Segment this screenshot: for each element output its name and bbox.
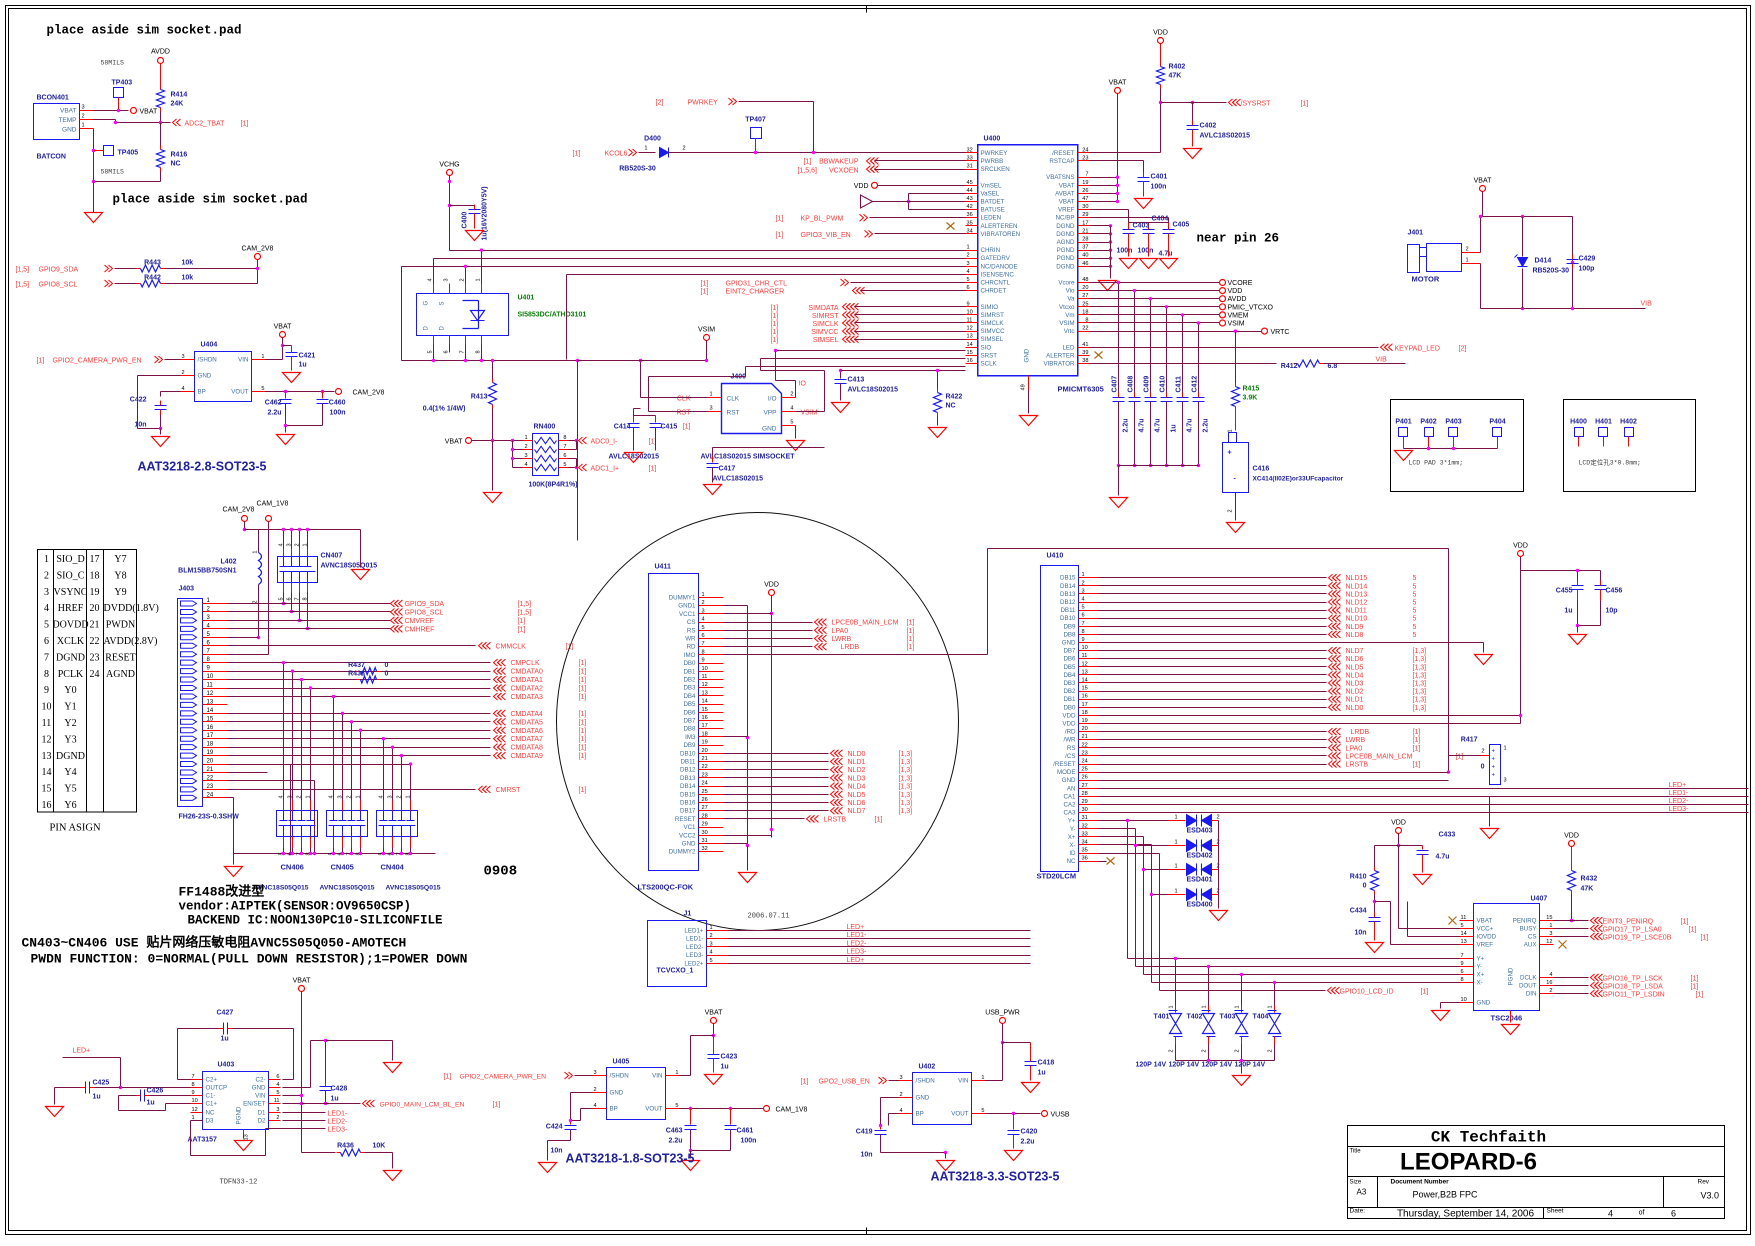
svg-text:CN404: CN404	[381, 863, 405, 872]
svg-text:10k: 10k	[182, 260, 194, 267]
svg-text:SIO: SIO	[981, 344, 992, 351]
svg-text:ESD402: ESD402	[1187, 853, 1213, 860]
svg-text:1: 1	[261, 354, 264, 360]
svg-text:100n: 100n	[1117, 248, 1133, 255]
svg-text:KP_BL_PWM: KP_BL_PWM	[801, 216, 844, 223]
svg-text:16: 16	[1546, 980, 1552, 986]
svg-text:DB2: DB2	[1063, 688, 1076, 695]
svg-text:P403: P403	[1445, 419, 1461, 426]
svg-text:14: 14	[1461, 931, 1467, 937]
svg-text:[1]: [1]	[1413, 729, 1421, 736]
svg-text:[1,3]: [1,3]	[1413, 689, 1427, 696]
svg-text:RSTCAP: RSTCAP	[1049, 158, 1074, 165]
svg-text:120P 14V: 120P 14V	[1235, 1062, 1266, 1069]
svg-text:VPP: VPP	[763, 410, 776, 417]
svg-text:13: 13	[42, 751, 52, 762]
svg-text:LEOPARD-6: LEOPARD-6	[1400, 1149, 1537, 1176]
svg-text:SIMRST: SIMRST	[981, 312, 1005, 319]
svg-text:LED3-: LED3-	[847, 949, 868, 956]
svg-text:TP403: TP403	[112, 80, 133, 87]
svg-text:VSIM: VSIM	[1059, 320, 1074, 327]
svg-text:VDD: VDD	[1564, 833, 1579, 840]
svg-text:5: 5	[675, 1103, 678, 1109]
svg-text:5: 5	[276, 1090, 279, 1096]
svg-text:1u: 1u	[221, 1036, 229, 1043]
svg-text:1: 1	[644, 146, 647, 152]
svg-text:DB7: DB7	[683, 718, 696, 725]
svg-text:[1]: [1]	[579, 728, 587, 735]
svg-text:PWDN FUNCTION: 0=NORMAL(PULL D: PWDN FUNCTION: 0=NORMAL(PULL DOWN RESIST…	[31, 952, 468, 967]
svg-text:[1]: [1]	[1681, 919, 1689, 926]
svg-text:6: 6	[702, 633, 705, 639]
svg-text:1: 1	[306, 795, 312, 798]
svg-text:U401: U401	[518, 295, 535, 302]
svg-text:U411: U411	[655, 564, 671, 571]
svg-text:GPIO0_MAIN_LCM_BL_EN: GPIO0_MAIN_LCM_BL_EN	[380, 1102, 465, 1109]
svg-text:[1]: [1]	[907, 620, 915, 627]
svg-text:2: 2	[347, 795, 353, 798]
svg-text:5: 5	[44, 620, 49, 631]
svg-text:VOUT: VOUT	[951, 1111, 968, 1118]
svg-text:DB11: DB11	[680, 759, 696, 766]
svg-text:+: +	[1492, 773, 1496, 779]
svg-text:1: 1	[82, 123, 85, 129]
svg-text:18: 18	[207, 742, 214, 748]
svg-text:4: 4	[790, 406, 793, 412]
svg-text:GPIO16_TP_LSCK: GPIO16_TP_LSCK	[1603, 976, 1664, 983]
svg-text:3: 3	[388, 795, 394, 798]
svg-text:[1]: [1]	[771, 337, 779, 344]
svg-text:SIMVCC: SIMVCC	[981, 328, 1006, 335]
svg-text:DB15: DB15	[1060, 575, 1076, 582]
svg-text:Size: Size	[1350, 1180, 1362, 1186]
svg-text:DB13: DB13	[680, 775, 696, 782]
svg-text:5: 5	[790, 420, 793, 426]
svg-text:+: +	[1492, 757, 1496, 763]
svg-text:4: 4	[44, 603, 49, 614]
svg-text:2: 2	[1169, 1049, 1175, 1052]
svg-text:29: 29	[1082, 212, 1088, 218]
svg-text:15: 15	[1546, 915, 1552, 921]
svg-text:U400: U400	[984, 136, 1001, 143]
svg-text:14: 14	[702, 699, 708, 705]
svg-text:EINT3_PENIRQ: EINT3_PENIRQ	[1603, 919, 1654, 926]
svg-text:GND: GND	[198, 373, 212, 380]
svg-text:VBAT: VBAT	[293, 978, 311, 985]
svg-text:EINT2_CHARGER: EINT2_CHARGER	[726, 289, 785, 296]
svg-text:RB520S-30: RB520S-30	[619, 166, 656, 173]
svg-text:13: 13	[1461, 939, 1467, 945]
svg-text:LED1-: LED1-	[1669, 790, 1690, 797]
svg-text:DB8: DB8	[1063, 631, 1076, 638]
svg-text:PIN ASIGN: PIN ASIGN	[50, 823, 101, 834]
svg-text:C410: C410	[1160, 376, 1167, 393]
svg-text:23: 23	[207, 784, 214, 790]
svg-text:15: 15	[207, 716, 214, 722]
svg-text:2: 2	[276, 1115, 279, 1121]
svg-text:C417: C417	[719, 466, 736, 473]
svg-text:28: 28	[1082, 237, 1088, 243]
svg-text:NLD13: NLD13	[1346, 591, 1368, 598]
svg-text:6: 6	[444, 350, 450, 353]
svg-text:LPA0: LPA0	[832, 628, 849, 635]
svg-text:BUSY: BUSY	[1520, 926, 1537, 933]
svg-text:1: 1	[1549, 923, 1552, 929]
svg-text:[1]: [1]	[518, 618, 526, 625]
svg-text:23: 23	[1082, 750, 1088, 756]
svg-text:100K(8P4R1%): 100K(8P4R1%)	[529, 482, 578, 489]
svg-text:/RESET: /RESET	[1053, 761, 1076, 768]
svg-text:0: 0	[1481, 764, 1485, 771]
svg-text:ID: ID	[1069, 850, 1076, 857]
svg-text:R422: R422	[946, 394, 963, 401]
svg-text:[1]: [1]	[579, 753, 587, 760]
svg-text:19: 19	[1082, 718, 1088, 724]
svg-text:C462: C462	[265, 400, 282, 407]
svg-text:R437: R437	[348, 662, 365, 669]
svg-text:GPIO11_TP_LSDIN: GPIO11_TP_LSDIN	[1603, 992, 1665, 999]
svg-text:4.7u: 4.7u	[1139, 418, 1146, 432]
svg-text:1: 1	[675, 1070, 678, 1076]
svg-text:V3.0: V3.0	[1701, 1191, 1720, 1201]
svg-text:C412: C412	[1192, 376, 1199, 393]
svg-text:FF1488改进型: FF1488改进型	[179, 884, 265, 900]
svg-text:C409: C409	[1144, 376, 1151, 393]
svg-text:6: 6	[44, 636, 49, 647]
svg-text:CMDATA9: CMDATA9	[511, 753, 544, 760]
svg-text:GPIO31_CHR_CTL: GPIO31_CHR_CTL	[726, 281, 788, 288]
svg-text:GND1: GND1	[678, 603, 696, 610]
svg-text:SIMVCC: SIMVCC	[811, 329, 838, 336]
svg-text:U404: U404	[201, 342, 218, 349]
svg-text:FH26-23S-0.3SHW: FH26-23S-0.3SHW	[179, 814, 240, 821]
svg-text:CA1: CA1	[1063, 793, 1076, 800]
svg-text:L402: L402	[221, 559, 237, 566]
svg-text:LED+: LED+	[847, 957, 865, 964]
svg-text:4: 4	[1549, 972, 1552, 978]
svg-text:27: 27	[1082, 783, 1088, 789]
svg-text:9: 9	[1082, 637, 1085, 643]
svg-text:AGND: AGND	[106, 669, 135, 680]
svg-text:R432: R432	[1581, 876, 1598, 883]
svg-text:28: 28	[1082, 791, 1088, 797]
svg-text:AVLC18S02015 SIMSOCKET: AVLC18S02015 SIMSOCKET	[701, 454, 796, 461]
svg-text:100n: 100n	[1151, 184, 1167, 191]
svg-text:21: 21	[1082, 228, 1088, 234]
svg-text:[1,5]: [1,5]	[16, 267, 30, 274]
svg-text:[1]: [1]	[1413, 737, 1421, 744]
svg-text:CMDATA4: CMDATA4	[511, 711, 544, 718]
svg-text:2: 2	[1268, 1049, 1274, 1052]
svg-text:VBAT: VBAT	[1477, 918, 1493, 925]
svg-text:VIN: VIN	[652, 1073, 662, 1080]
svg-text:NLD3: NLD3	[848, 775, 866, 782]
svg-text:U405: U405	[613, 1059, 630, 1066]
svg-text:33: 33	[967, 156, 973, 162]
svg-text:18: 18	[90, 570, 100, 581]
svg-text:NLD11: NLD11	[1346, 608, 1367, 615]
svg-text:24: 24	[90, 669, 100, 680]
svg-text:1: 1	[253, 551, 259, 554]
svg-text:58MILS: 58MILS	[101, 60, 125, 67]
svg-text:RN400: RN400	[534, 424, 556, 431]
svg-text:3: 3	[594, 1070, 597, 1076]
svg-text:ALERTER: ALERTER	[1046, 352, 1075, 359]
svg-text:4: 4	[525, 462, 528, 468]
svg-text:DB17: DB17	[680, 808, 696, 815]
svg-text:26: 26	[1082, 188, 1088, 194]
svg-text:TSC2046: TSC2046	[1491, 1014, 1523, 1023]
svg-text:18: 18	[1082, 710, 1088, 716]
svg-text:12: 12	[42, 734, 52, 745]
svg-text:RS: RS	[687, 627, 696, 634]
svg-text:Y0: Y0	[64, 685, 76, 696]
svg-text:AVNC18S05Q015: AVNC18S05Q015	[320, 885, 375, 892]
svg-text:2: 2	[594, 1087, 597, 1093]
svg-text:VSIM: VSIM	[1228, 321, 1245, 328]
svg-text:CA2: CA2	[1063, 802, 1076, 809]
svg-text:VCXOEN: VCXOEN	[829, 168, 859, 175]
svg-text:NLD2: NLD2	[1346, 689, 1364, 696]
svg-text:RD: RD	[687, 644, 696, 651]
svg-text:4.7u: 4.7u	[1187, 418, 1194, 432]
svg-text:RS: RS	[1067, 745, 1076, 752]
svg-text:[1]: [1]	[573, 151, 581, 158]
svg-text:2.2u: 2.2u	[1203, 418, 1210, 432]
svg-text:5: 5	[1413, 591, 1417, 598]
svg-text:VIN: VIN	[958, 1078, 968, 1085]
svg-text:VOUT: VOUT	[231, 389, 248, 396]
svg-text:9: 9	[702, 658, 705, 664]
svg-text:20: 20	[1082, 726, 1088, 732]
svg-text:33: 33	[1082, 831, 1088, 837]
svg-text:P402: P402	[1420, 419, 1436, 426]
svg-text:PMIC_VTCXO: PMIC_VTCXO	[1228, 304, 1274, 311]
svg-text:CAM_2V8: CAM_2V8	[353, 390, 385, 397]
svg-text:10: 10	[207, 674, 214, 680]
svg-text:DB10: DB10	[680, 750, 696, 757]
svg-text:1u: 1u	[147, 1100, 155, 1107]
svg-text:RST: RST	[677, 410, 692, 417]
svg-text:CMRST: CMRST	[496, 787, 522, 794]
svg-text:C433: C433	[1439, 832, 1456, 839]
svg-text:T403: T403	[1220, 1014, 1236, 1021]
svg-text:NLD0: NLD0	[1346, 705, 1364, 712]
svg-text:39: 39	[1082, 350, 1088, 356]
svg-text:VCHG: VCHG	[439, 162, 459, 169]
svg-text:1: 1	[476, 278, 482, 281]
svg-text:3: 3	[276, 1107, 279, 1113]
svg-text:2: 2	[297, 795, 303, 798]
svg-text:CMDATA5: CMDATA5	[511, 719, 544, 726]
svg-text:VIBRATOR: VIBRATOR	[1043, 361, 1075, 368]
svg-text:4: 4	[279, 795, 285, 798]
svg-text:3: 3	[44, 587, 49, 598]
svg-text:21: 21	[702, 756, 708, 762]
svg-text:DGND: DGND	[1056, 223, 1075, 230]
svg-text:/SHDN: /SHDN	[198, 357, 217, 364]
svg-text:VSYNC: VSYNC	[54, 587, 88, 598]
svg-text:2: 2	[967, 253, 970, 259]
svg-text:13: 13	[1082, 669, 1088, 675]
svg-text:PGND: PGND	[1508, 967, 1515, 985]
svg-text:5: 5	[428, 350, 434, 353]
svg-text:NLD7: NLD7	[1346, 648, 1364, 655]
svg-text:DCLK: DCLK	[1520, 975, 1537, 982]
svg-text:3: 3	[1504, 778, 1507, 784]
svg-text:10p: 10p	[1606, 608, 1618, 615]
svg-text:C415: C415	[661, 424, 678, 431]
svg-text:C424: C424	[546, 1124, 563, 1131]
svg-text:37: 37	[1082, 245, 1088, 251]
svg-text:GPIO18_TP_LSDA: GPIO18_TP_LSDA	[1603, 984, 1664, 991]
svg-text:C414: C414	[614, 424, 631, 431]
svg-text:17: 17	[207, 733, 214, 739]
svg-text:3: 3	[525, 453, 528, 459]
svg-text:1u: 1u	[1171, 424, 1178, 432]
svg-text:[1,3]: [1,3]	[899, 792, 913, 799]
svg-text:Y3: Y3	[64, 734, 76, 745]
svg-text:LCD定位孔3*0.8mm;: LCD定位孔3*0.8mm;	[1579, 458, 1641, 467]
svg-text:1: 1	[710, 392, 713, 398]
svg-text:1: 1	[1082, 572, 1085, 578]
svg-text:NLD6: NLD6	[1346, 656, 1364, 663]
svg-text:Y2: Y2	[64, 718, 76, 729]
svg-text:LED2-: LED2-	[328, 1119, 349, 1126]
svg-text:VIN: VIN	[238, 357, 248, 364]
svg-text:4: 4	[702, 617, 705, 623]
svg-text:ADC0_I-: ADC0_I-	[591, 439, 619, 446]
svg-text:OUTCP: OUTCP	[206, 1085, 228, 1092]
svg-text:NLD5: NLD5	[848, 792, 866, 799]
svg-text:X+: X+	[1068, 834, 1076, 841]
svg-text:H400: H400	[1570, 419, 1587, 426]
svg-text:25: 25	[702, 789, 708, 795]
svg-text:[1,3]: [1,3]	[899, 784, 913, 791]
svg-text:ESD401: ESD401	[1187, 877, 1213, 884]
svg-text:DB6: DB6	[683, 709, 696, 716]
svg-text:26: 26	[702, 797, 708, 803]
svg-text:VCC1: VCC1	[679, 611, 696, 618]
svg-text:X-: X-	[1477, 980, 1483, 987]
svg-text:10: 10	[1461, 997, 1467, 1003]
svg-text:LWRB: LWRB	[832, 636, 852, 643]
svg-text:2.2u: 2.2u	[1123, 418, 1130, 432]
svg-text:[1]: [1]	[701, 289, 709, 296]
svg-text:15: 15	[967, 350, 973, 356]
svg-text:[1]: [1]	[771, 321, 779, 328]
svg-text:13: 13	[702, 690, 708, 696]
svg-text:C456: C456	[1606, 588, 1623, 595]
svg-text:8: 8	[1085, 318, 1088, 324]
svg-text:100p: 100p	[1579, 266, 1595, 273]
svg-text:22: 22	[207, 775, 214, 781]
svg-text:Y+: Y+	[1477, 956, 1485, 963]
svg-text:C463: C463	[666, 1128, 683, 1135]
svg-text:6: 6	[967, 285, 970, 291]
svg-text:3: 3	[967, 261, 970, 267]
svg-text:VSIM: VSIM	[698, 327, 715, 334]
svg-text:12: 12	[967, 326, 973, 332]
svg-text:9: 9	[967, 301, 970, 307]
svg-text:LWRB: LWRB	[1346, 737, 1366, 744]
svg-text:8: 8	[563, 435, 566, 441]
svg-text:J401: J401	[1408, 230, 1424, 237]
svg-text:LED3-: LED3-	[1669, 806, 1690, 813]
svg-text:3: 3	[338, 795, 344, 798]
svg-text:1: 1	[1175, 864, 1178, 870]
svg-text:24: 24	[207, 792, 214, 798]
svg-text:1: 1	[1268, 1005, 1274, 1008]
svg-text:2: 2	[460, 278, 466, 281]
svg-text:43: 43	[967, 196, 973, 202]
svg-text:120P 14V: 120P 14V	[1136, 1062, 1167, 1069]
svg-text:NLD2: NLD2	[848, 767, 866, 774]
svg-text:6: 6	[276, 1074, 279, 1080]
svg-text:[1,5]: [1,5]	[518, 609, 532, 616]
svg-text:C2-: C2-	[256, 1077, 266, 1084]
svg-text:31: 31	[1082, 815, 1088, 821]
svg-text:47K: 47K	[1169, 73, 1182, 80]
svg-text:6: 6	[1671, 1209, 1676, 1219]
svg-text:DGND: DGND	[1056, 263, 1075, 270]
svg-text:[1,3]: [1,3]	[1413, 697, 1427, 704]
svg-text:NLD10: NLD10	[1346, 616, 1368, 623]
svg-text:19: 19	[207, 750, 214, 756]
svg-text:VBATSNS: VBATSNS	[1046, 174, 1074, 181]
svg-text:[1]: [1]	[683, 424, 691, 431]
svg-text:100n: 100n	[1138, 248, 1154, 255]
svg-text:10: 10	[967, 309, 973, 315]
svg-text:CN406: CN406	[281, 863, 304, 872]
svg-text:TEMP: TEMP	[58, 117, 76, 124]
svg-text:VRTC: VRTC	[1271, 329, 1290, 336]
svg-text:+: +	[1492, 765, 1496, 771]
svg-text:VBAT: VBAT	[60, 108, 77, 115]
svg-text:C402: C402	[1200, 123, 1217, 130]
svg-text:24K: 24K	[171, 101, 184, 108]
svg-text:C407: C407	[1112, 376, 1119, 393]
svg-text:GPIO8_SCL: GPIO8_SCL	[39, 282, 78, 289]
svg-text:DGND: DGND	[1056, 231, 1075, 238]
svg-text:DB9: DB9	[1063, 623, 1076, 630]
svg-text:21: 21	[207, 767, 214, 773]
svg-text:BP: BP	[916, 1111, 924, 1118]
svg-text:near pin 26: near pin 26	[1197, 232, 1280, 246]
svg-text:34: 34	[1082, 840, 1088, 846]
svg-text:20: 20	[1082, 285, 1088, 291]
svg-text:CN407: CN407	[321, 553, 343, 560]
svg-text:BLM15BB750SN1: BLM15BB750SN1	[178, 568, 236, 575]
svg-text:C418: C418	[1038, 1060, 1055, 1067]
svg-text:8: 8	[192, 1082, 195, 1088]
svg-text:2: 2	[182, 370, 185, 376]
svg-text:NC: NC	[206, 1110, 215, 1117]
svg-text:BATUSE: BATUSE	[981, 207, 1005, 214]
svg-text:42: 42	[967, 204, 973, 210]
svg-text:C411: C411	[1176, 376, 1183, 392]
svg-text:Va: Va	[1067, 296, 1075, 303]
svg-text:NLD1: NLD1	[848, 759, 866, 766]
svg-text:BP: BP	[198, 389, 206, 396]
svg-text:2: 2	[44, 570, 49, 581]
svg-text:VDD: VDD	[1228, 288, 1243, 295]
svg-text:+: +	[1492, 749, 1496, 755]
svg-text:19: 19	[1082, 180, 1088, 186]
svg-text:1: 1	[525, 435, 528, 441]
svg-text:LEDEN: LEDEN	[981, 215, 1002, 222]
svg-text:GND: GND	[1062, 777, 1076, 784]
